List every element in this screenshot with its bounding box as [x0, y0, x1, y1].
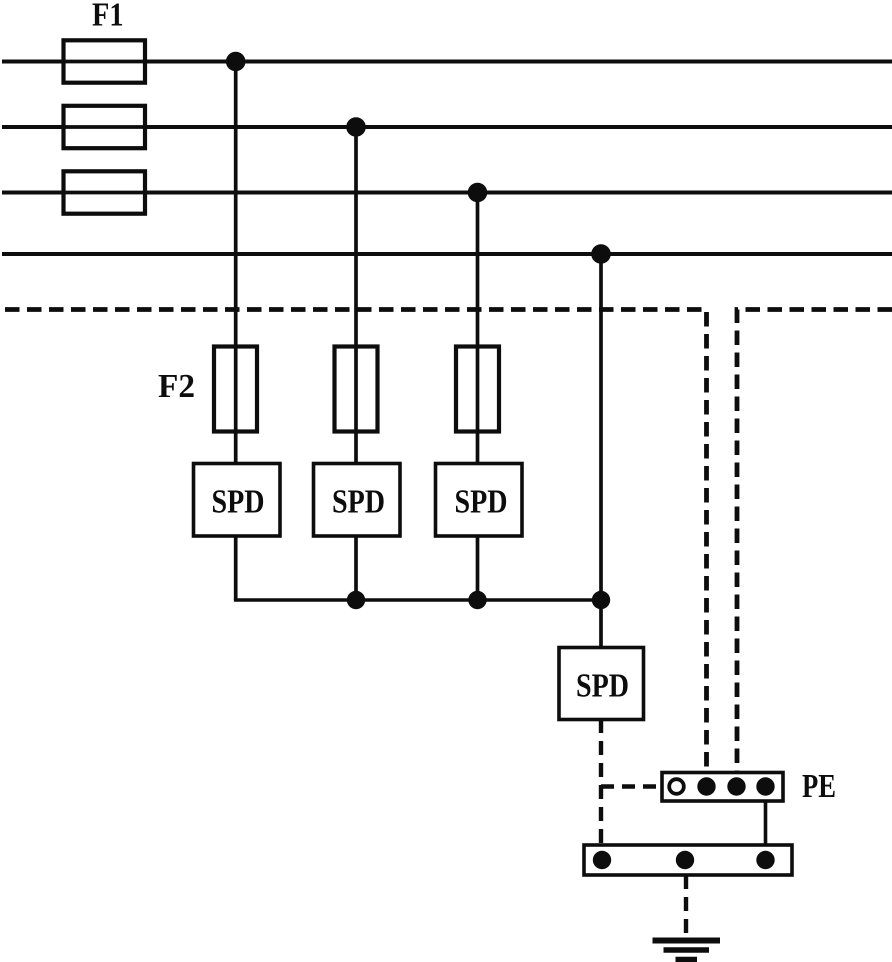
- wire bus connecting SPD bottoms: [234, 598, 601, 602]
- wire V3 (drop from L3 to bus): [476, 193, 480, 601]
- node bus dot at V2: [347, 591, 365, 609]
- wire L1 (phase line 1): [2, 60, 892, 64]
- terminal open circle in PE bar: [669, 779, 684, 794]
- terminal dot EB 3: [756, 851, 774, 869]
- PE terminal bar: [662, 773, 783, 802]
- svg-text:SPD: SPD: [332, 484, 385, 521]
- wire through F1a: [64, 60, 146, 64]
- terminal dot EB 2: [676, 851, 694, 869]
- op SPD U1 box: [194, 464, 281, 537]
- wire through F1b: [64, 125, 146, 129]
- wire V1 (drop from L1 to bus): [234, 62, 238, 601]
- fuse F2b: [335, 347, 378, 432]
- fuse F2c: [456, 347, 499, 432]
- wire through F1c: [64, 191, 146, 195]
- wire V4 (drop from L4 to SPD4): [599, 254, 603, 647]
- node bus dot at V4: [592, 591, 610, 609]
- svg-text:SPD: SPD: [212, 484, 265, 521]
- node bus dot at V3: [468, 591, 486, 609]
- svg-text:SPD: SPD: [576, 668, 629, 705]
- wire L2 (phase line 2): [2, 125, 892, 129]
- wire PE dashed bus left segment with corner down to PE bar: [5, 310, 707, 773]
- terminal dot EB 1: [593, 851, 611, 869]
- wire V2 (drop from L2 to bus): [354, 127, 358, 600]
- op SPD U4 box: [559, 648, 644, 720]
- node junction dot on L2: [346, 117, 366, 137]
- terminal dot PE 2: [727, 777, 745, 795]
- node junction dot on L3: [468, 183, 488, 203]
- terminal dot PE 3: [756, 777, 774, 795]
- node junction dot on L4: [591, 244, 611, 264]
- wire dashed branch to PE bar: [601, 784, 662, 788]
- svg-text:F1: F1: [92, 0, 124, 34]
- fuse F1c: [64, 171, 146, 213]
- fuse F1a: [64, 40, 146, 82]
- wire dashed from bar to ground: [684, 875, 688, 936]
- wire from PE bar down to equipotential bar: [764, 801, 768, 845]
- wire dashed from SPD U4 down to equipotential bar: [599, 719, 603, 845]
- node junction dot on L1: [226, 52, 246, 72]
- svg-text:PE: PE: [802, 768, 836, 805]
- svg-text:SPD: SPD: [455, 484, 508, 521]
- fuse F1b: [64, 106, 146, 148]
- equipotential terminal bar: [584, 845, 792, 875]
- ground symbol: [653, 941, 721, 960]
- wire L3 (phase line 3): [2, 191, 892, 195]
- terminal dot PE 1: [697, 777, 715, 795]
- fuse F2a: [214, 347, 257, 432]
- op SPD U2 box: [314, 464, 401, 537]
- op SPD U3 box: [436, 464, 523, 537]
- svg-text:F2: F2: [158, 368, 195, 405]
- wire PE dashed bus right segment with corner down to PE bar: [737, 310, 892, 773]
- wire L4 (neutral line): [2, 252, 892, 256]
